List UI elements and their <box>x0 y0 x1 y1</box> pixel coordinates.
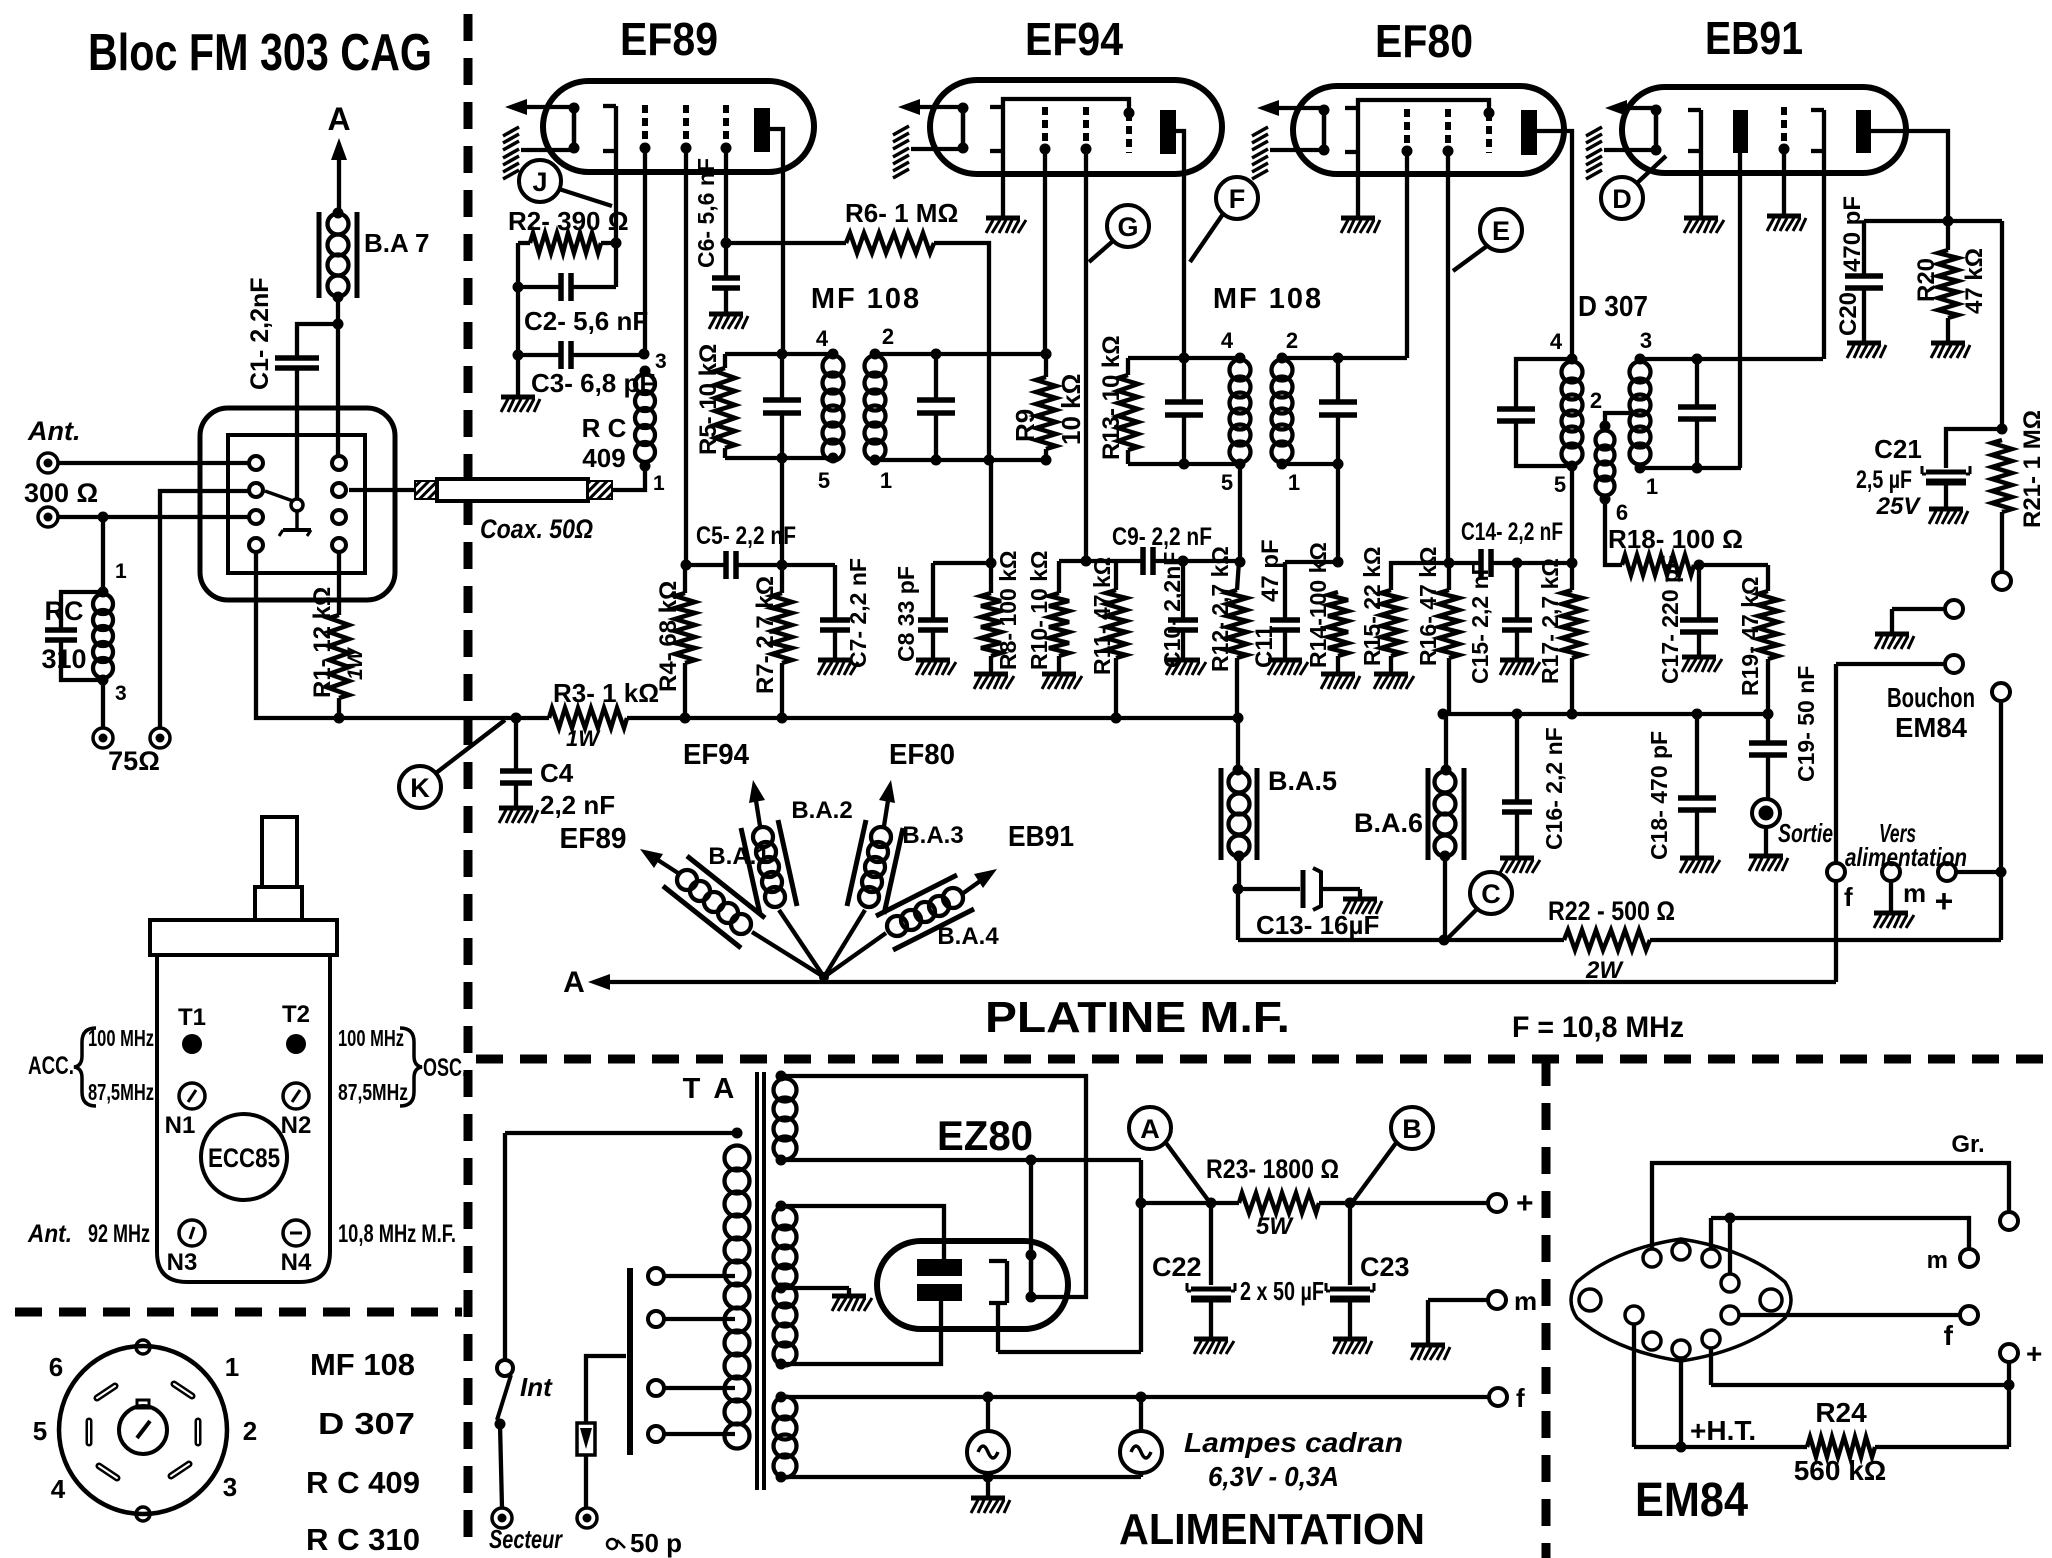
transformer TA core <box>757 1072 764 1490</box>
svg-text:1W: 1W <box>344 646 367 680</box>
EF89 anode <box>754 108 783 355</box>
svg-text:ACC.: ACC. <box>28 1052 74 1080</box>
resistor R17 2.7k <box>1537 466 1582 714</box>
capacitor C1 <box>246 277 344 500</box>
svg-text:ECC85: ECC85 <box>208 1143 280 1173</box>
ground C18 <box>1680 858 1720 873</box>
EB91 cathode arrow <box>1605 100 1656 116</box>
resistor R24 560k <box>1794 1385 2009 1486</box>
ground EF94 g1 <box>986 218 1026 233</box>
svg-text:A: A <box>1140 1114 1160 1144</box>
svg-text:A: A <box>327 101 350 137</box>
capacitor C13 16uF <box>1233 856 1380 940</box>
resistor R22 500 <box>1444 896 2001 984</box>
wire HT2 top to plate1 <box>781 1206 944 1259</box>
svg-text:R19- 47 kΩ: R19- 47 kΩ <box>1737 577 1763 696</box>
svg-text:B.A 7: B.A 7 <box>364 228 430 258</box>
ground C8 <box>916 660 956 675</box>
resistor R19 47k <box>1737 565 1778 720</box>
ground C15 <box>1500 660 1540 675</box>
tube EF94 envelope <box>930 80 1222 174</box>
terminal 75 ohm left <box>93 680 113 748</box>
EF89 grid g1 <box>603 106 616 243</box>
svg-text:6,3V - 0,3A: 6,3V - 0,3A <box>1208 1461 1339 1492</box>
coax cable 50 ohm <box>349 468 645 544</box>
svg-text:T2: T2 <box>282 1001 310 1028</box>
core N2 <box>281 1083 312 1139</box>
resistor R11 47k <box>1089 557 1126 718</box>
label Ant 92 MHz <box>27 1220 150 1248</box>
svg-text:EZ80: EZ80 <box>937 1112 1033 1159</box>
transformer TA label <box>683 1073 738 1105</box>
MF108-1 primary rail top <box>725 349 839 360</box>
D307 secondary rail bottom <box>1640 466 1741 470</box>
svg-text:F = 10,8 MHz: F = 10,8 MHz <box>1512 1011 1684 1044</box>
resistor R18 100 <box>1605 499 1768 575</box>
D307 secondary rail top <box>1640 354 1823 365</box>
EF89 grid g2 dashed <box>640 105 651 355</box>
svg-text:R7- 2,7 kΩ: R7- 2,7 kΩ <box>752 576 779 694</box>
terminal f Bouchon <box>1827 655 1963 912</box>
terminal Ant <box>27 416 249 473</box>
resistor R4 68k <box>655 565 695 718</box>
resistor R8 100k <box>981 460 1021 672</box>
wire BA5 to cathode rail <box>1238 889 1450 946</box>
svg-text:C7- 2,2 nF: C7- 2,2 nF <box>845 558 871 668</box>
svg-text:1W: 1W <box>566 726 601 751</box>
svg-text:J: J <box>532 167 547 197</box>
EM84 socket outline <box>1571 1239 1791 1361</box>
ground C13 <box>1343 899 1382 914</box>
svg-text:ALIMENTATION: ALIMENTATION <box>1119 1505 1425 1554</box>
MF108-2 primary tuning capacitor <box>1165 358 1203 464</box>
EF80 cathode <box>1319 105 1330 156</box>
svg-text:5: 5 <box>1554 472 1566 497</box>
MF108-1 primary tuning capacitor <box>763 354 801 458</box>
svg-text:C13- 16µF: C13- 16µF <box>1256 910 1379 940</box>
svg-text:m: m <box>1927 1247 1948 1274</box>
resistor R13 10k <box>1098 335 1138 464</box>
node J <box>519 160 612 206</box>
EB91 grid dashed <box>1779 107 1790 214</box>
transformer MF108 second label <box>1213 283 1323 315</box>
ground R20 <box>1931 343 1970 358</box>
ground R14 <box>1321 674 1360 689</box>
svg-text:C19- 50 nF: C19- 50 nF <box>1793 666 1819 782</box>
resistor R10 10k <box>1026 551 1086 672</box>
coil B.A.2 to EF94 <box>683 739 853 977</box>
node E <box>1453 209 1522 271</box>
coil RC409 <box>582 350 667 495</box>
svg-text:+: + <box>1516 1187 1534 1220</box>
tuner switch lever <box>265 491 311 536</box>
socket key center <box>119 1400 167 1454</box>
svg-text:N2: N2 <box>281 1112 312 1139</box>
svg-text:2,5 µF: 2,5 µF <box>1856 466 1912 494</box>
tube EF80 label <box>1375 15 1473 67</box>
ground R15 <box>1374 674 1414 689</box>
terminal plus EM84 <box>2000 1338 2042 1391</box>
cathode bottom rail right section <box>1438 709 1769 720</box>
D307 primary tuning capacitor <box>1497 359 1572 466</box>
wire f to A line <box>1834 881 1838 982</box>
svg-text:C4: C4 <box>540 758 574 788</box>
coil B.A.3 to EF80 <box>824 739 964 977</box>
svg-text:R18- 100 Ω: R18- 100 Ω <box>1608 524 1743 554</box>
ground C21 <box>1929 509 1968 524</box>
EB91 diode electrode 2 <box>1811 110 1824 359</box>
capacitor C10 <box>1159 552 1198 668</box>
svg-text:R17- 2,7 kΩ: R17- 2,7 kΩ <box>1537 558 1563 684</box>
svg-text:R16- 47 kΩ: R16- 47 kΩ <box>1415 547 1441 666</box>
wire Gr <box>1652 1131 2018 1249</box>
svg-text:B.A.5: B.A.5 <box>1268 766 1337 796</box>
resistor R1 12k <box>309 552 367 724</box>
svg-text:N1: N1 <box>165 1112 196 1139</box>
capacitor C19 <box>1749 666 1819 799</box>
svg-text:R C 409: R C 409 <box>306 1465 420 1500</box>
svg-text:R5- 10 kΩ: R5- 10 kΩ <box>695 344 722 455</box>
tube EF80 envelope <box>1293 86 1564 174</box>
coil RC 310 <box>41 560 127 705</box>
ground m supply <box>1411 1345 1450 1360</box>
terminal plus supply <box>1350 1187 1534 1220</box>
svg-text:D: D <box>1612 184 1632 214</box>
svg-text:C22: C22 <box>1152 1252 1202 1282</box>
EF80 grid g4 dashed <box>1484 108 1495 154</box>
svg-text:C23: C23 <box>1360 1252 1410 1282</box>
ground EB91 diode1 <box>1684 218 1724 233</box>
label MF 108 list <box>310 1347 415 1382</box>
lamp 1 <box>967 1397 1009 1477</box>
terminal R21 <box>1993 572 2011 590</box>
svg-text:R6- 1 MΩ: R6- 1 MΩ <box>845 198 958 228</box>
svg-text:R2- 390 Ω: R2- 390 Ω <box>508 206 629 236</box>
node A arrow to antenna <box>327 101 350 212</box>
label RC 409 list <box>306 1465 420 1500</box>
coil B.A.7 <box>319 208 430 303</box>
MF108-1 secondary rail top <box>875 349 1052 360</box>
MF108-2 secondary coil <box>1272 328 1301 495</box>
ground m Bouchon <box>1874 913 1914 928</box>
svg-text:C16- 2,2 nF: C16- 2,2 nF <box>1541 727 1567 850</box>
svg-text:EM84: EM84 <box>1895 712 1967 743</box>
terminal 75 ohm right <box>108 491 249 776</box>
svg-text:f: f <box>1516 1383 1525 1413</box>
ground EB91 grid <box>1767 216 1806 231</box>
capacitor C11 47pF <box>1251 539 1338 668</box>
resistor R9 10k <box>1010 354 1086 460</box>
svg-text:Ant.: Ant. <box>27 1220 72 1248</box>
tube EZ80 envelope <box>877 1241 1068 1329</box>
svg-text:D 307: D 307 <box>1578 291 1648 323</box>
main AGC bus wire <box>256 552 1244 724</box>
svg-text:1: 1 <box>880 468 892 493</box>
label EM84 <box>1635 1474 1748 1527</box>
svg-text:5: 5 <box>1221 470 1233 495</box>
EZ80 plate 1 <box>917 1259 962 1276</box>
electrostatic shield bar <box>627 1268 633 1455</box>
heater wire top <box>776 1392 1490 1403</box>
wire HT1 top to rectifier cathode return <box>781 1076 1086 1297</box>
svg-text:B.A.2: B.A.2 <box>791 797 852 824</box>
transformer D307 label <box>1578 291 1648 323</box>
wire m EM84 <box>1711 1213 1978 1275</box>
svg-text:f: f <box>1844 882 1853 912</box>
labels ACC <box>28 1025 154 1106</box>
svg-text:C18- 470 pF: C18- 470 pF <box>1646 731 1672 860</box>
line A AGC <box>563 966 1836 999</box>
MF108-2 primary rail bottom <box>1128 459 1246 568</box>
svg-text:N3: N3 <box>167 1249 198 1276</box>
svg-text:Bloc FM 303 CAG: Bloc FM 303 CAG <box>88 24 432 82</box>
capacitor C15 <box>1467 561 1532 684</box>
svg-text:R C: R C <box>582 413 627 443</box>
resistor R6 1M <box>726 198 989 458</box>
svg-text:EF80: EF80 <box>889 739 955 771</box>
svg-text:R20: R20 <box>1913 258 1940 302</box>
svg-text:75Ω: 75Ω <box>108 746 160 776</box>
ground C6 <box>709 314 748 329</box>
svg-text:D 307: D 307 <box>318 1406 415 1441</box>
svg-text:Secteur: Secteur <box>489 1524 563 1554</box>
tuner pins right column <box>332 456 346 552</box>
svg-text:RC: RC <box>45 596 84 626</box>
wire HT1 bottom B plus line <box>781 1155 1141 1166</box>
terminal 50p <box>577 1508 682 1558</box>
terminal f supply <box>1489 1383 1525 1413</box>
resistor R16 47k <box>1415 547 1459 714</box>
svg-text:C8 33 pF: C8 33 pF <box>893 566 919 662</box>
svg-text:100 MHz: 100 MHz <box>338 1025 404 1051</box>
MF108-1 secondary tuning capacitor <box>917 354 955 460</box>
capacitor C18 <box>1646 714 1716 860</box>
svg-text:EF94: EF94 <box>1025 13 1123 65</box>
svg-text:MF 108: MF 108 <box>310 1347 415 1382</box>
node B circle <box>1354 1107 1433 1200</box>
EB91 diode electrode 1 <box>1688 110 1701 216</box>
capacitor C4 <box>499 718 615 823</box>
svg-text:310: 310 <box>41 644 86 674</box>
svg-text:R9: R9 <box>1010 409 1040 442</box>
svg-text:R1- 12 kΩ: R1- 12 kΩ <box>309 587 336 698</box>
svg-text:EF94: EF94 <box>683 739 749 771</box>
MF108-2 secondary tuning capacitor <box>1319 358 1357 464</box>
svg-text:R22 - 500 Ω: R22 - 500 Ω <box>1548 896 1675 926</box>
node K <box>399 720 505 808</box>
D307 primary coil <box>1550 329 1583 497</box>
EZ80 plate 2 <box>917 1284 962 1301</box>
svg-text:1: 1 <box>225 1352 239 1382</box>
ground heater <box>971 1498 1010 1513</box>
EF80 grid g2 dashed <box>1402 109 1413 358</box>
capacitor C6 <box>693 158 740 312</box>
tube EB91 envelope <box>1622 87 1906 173</box>
svg-text:T1: T1 <box>178 1004 206 1031</box>
terminal Gr pair <box>1892 600 1963 632</box>
dashed divider PLATINE MF / ALIMENTATION <box>476 1055 2052 1064</box>
trimmer T1 <box>178 1004 206 1054</box>
label ALIMENTATION <box>1119 1505 1425 1554</box>
node F <box>1190 177 1258 262</box>
node G <box>1089 205 1149 262</box>
svg-text:R11- 47 kΩ: R11- 47 kΩ <box>1089 557 1115 675</box>
terminal plus Bouchon <box>1935 683 2010 940</box>
EF80 cathode arrow <box>1257 100 1324 116</box>
svg-text:47 kΩ: 47 kΩ <box>1961 248 1988 314</box>
svg-text:C15- 2,2 nF: C15- 2,2 nF <box>1467 561 1493 684</box>
EF94 cathode <box>958 103 969 154</box>
tube ECC85 circle <box>201 1114 287 1200</box>
socket pin 6 <box>49 1352 115 1398</box>
wire C20 R20 rail <box>1864 219 2002 223</box>
resistor R20 47k <box>1913 221 1988 341</box>
wire plus to socket <box>1711 1348 2009 1385</box>
svg-text:B.A.3: B.A.3 <box>902 822 963 849</box>
EF89 cathode arrow <box>505 99 574 115</box>
capacitor C2 <box>518 243 648 336</box>
svg-text:5W: 5W <box>1256 1213 1294 1240</box>
svg-text:100 MHz: 100 MHz <box>88 1025 154 1051</box>
ground C22 <box>1194 1339 1234 1354</box>
MF108-1 secondary rail bottom <box>875 455 1052 466</box>
ground EF80 g1 <box>1341 218 1380 233</box>
svg-text:3: 3 <box>655 350 667 373</box>
MF108-2 secondary rail bottom <box>1282 459 1344 568</box>
mains taps terminals <box>648 1268 735 1442</box>
capacitor C8 <box>893 563 991 662</box>
wire HT node <box>1634 1324 1807 1453</box>
wire B.A.7 to tuner <box>336 297 340 458</box>
svg-text:C17- 220 pF: C17- 220 pF <box>1657 555 1683 684</box>
ground C20 <box>1847 343 1886 358</box>
EM84 socket pins <box>1579 1242 1782 1358</box>
ground center tap <box>832 1296 872 1311</box>
tuner block FM 303 outline <box>200 408 395 600</box>
label Lampes cadran <box>1184 1427 1403 1492</box>
svg-text:C20: C20 <box>1835 292 1862 336</box>
ground R10 <box>1042 674 1082 689</box>
svg-text:Int: Int <box>520 1372 553 1402</box>
terminal m Bouchon <box>1882 863 1926 911</box>
svg-text:T A: T A <box>683 1073 738 1105</box>
D307 secondary tuning capacitor <box>1678 359 1716 474</box>
label Vers alimentation <box>1845 818 1967 872</box>
D307 secondary coil <box>1630 328 1659 499</box>
terminal m supply <box>1428 1286 1537 1343</box>
svg-text:C10- 2,2nF: C10- 2,2nF <box>1159 552 1185 668</box>
node D <box>1601 156 1666 219</box>
MF108-2 primary coil <box>1221 328 1251 495</box>
label PLATINE M.F. <box>985 993 1290 1042</box>
svg-text:5: 5 <box>33 1416 47 1446</box>
wire HT2 bottom to plate2 <box>781 1301 941 1364</box>
EF80 grid g1 with strap <box>1345 100 1489 216</box>
label Bouchon EM84 <box>1887 682 1975 743</box>
ground C10 <box>1166 660 1206 675</box>
ground R2C2 rail <box>501 397 540 412</box>
svg-text:R24: R24 <box>1815 1397 1867 1428</box>
svg-text:C21: C21 <box>1874 434 1922 464</box>
EF94 cathode arrow <box>898 99 963 115</box>
svg-text:5: 5 <box>818 468 830 493</box>
capacitor C20 <box>1835 196 1883 341</box>
label RC 310 list <box>306 1522 420 1557</box>
socket pin 2 <box>198 1416 257 1446</box>
EF80 anode <box>1521 110 1572 359</box>
svg-text:G: G <box>1117 212 1138 242</box>
svg-text:2,2 nF: 2,2 nF <box>540 790 615 820</box>
svg-text:25V: 25V <box>1876 493 1922 520</box>
svg-text:C9- 2,2 nF: C9- 2,2 nF <box>1112 523 1212 551</box>
svg-text:+: + <box>1935 883 1954 919</box>
EF89 cathode ground <box>503 127 574 179</box>
svg-text:A: A <box>563 966 585 999</box>
ground C16 <box>1500 858 1540 873</box>
svg-text:EM84: EM84 <box>1635 1474 1748 1527</box>
tube EB91 label <box>1705 12 1803 64</box>
svg-text:R21- 1 MΩ: R21- 1 MΩ <box>2019 410 2046 528</box>
svg-text:3: 3 <box>223 1472 237 1502</box>
svg-text:4: 4 <box>1221 328 1234 353</box>
dashed section divider vertical left <box>464 14 473 1552</box>
svg-text:m: m <box>1903 878 1926 908</box>
terminal 300 ohm <box>24 478 249 592</box>
resistor R7 2.7k <box>752 565 792 718</box>
EF89 grid g3 dashed <box>681 105 692 565</box>
capacitor C17 <box>1657 555 1718 684</box>
tube socket circle <box>59 1340 227 1521</box>
capacitor C14 <box>1449 518 1578 577</box>
ground Gr pair <box>1875 634 1914 649</box>
svg-text:Coax. 50Ω: Coax. 50Ω <box>480 514 593 544</box>
svg-text:R13- 10 kΩ: R13- 10 kΩ <box>1098 335 1125 460</box>
svg-text:m: m <box>1514 1286 1537 1316</box>
ground R8 <box>974 674 1014 689</box>
dashed divider bottom-left <box>15 1308 462 1317</box>
svg-text:MF 108: MF 108 <box>1213 283 1323 315</box>
wire R2C2 ground rail <box>513 243 524 395</box>
svg-text:Lampes cadran: Lampes cadran <box>1184 1427 1403 1458</box>
resistor R15 22k <box>1359 547 1449 672</box>
svg-text:47 pF: 47 pF <box>1257 539 1284 602</box>
svg-text:EF80: EF80 <box>1375 15 1473 67</box>
svg-text:1: 1 <box>1646 474 1658 499</box>
svg-text:6: 6 <box>1616 500 1628 525</box>
svg-text:EB91: EB91 <box>1705 12 1803 64</box>
svg-text:OSC.: OSC. <box>423 1054 467 1082</box>
socket pin 5 <box>33 1416 89 1446</box>
resistor R21 1M <box>1992 410 2046 572</box>
svg-text:alimentation: alimentation <box>1845 842 1967 872</box>
switch Int <box>495 1133 554 1508</box>
capacitor C9 <box>1086 523 1239 575</box>
svg-text:560 kΩ: 560 kΩ <box>1794 1455 1887 1486</box>
capacitor C5 <box>681 522 797 579</box>
svg-text:C2- 5,6 nF: C2- 5,6 nF <box>524 306 648 336</box>
EZ80 cathode <box>1026 1160 1037 1303</box>
capacitor C23 <box>1326 1203 1410 1337</box>
EB91 anode 2 <box>1856 110 1954 227</box>
svg-text:2: 2 <box>1590 388 1602 413</box>
EF80 grid g3 dashed <box>1443 109 1455 569</box>
svg-text:f: f <box>1944 1320 1954 1351</box>
EF94 grid g4 dashed <box>1124 108 1135 154</box>
svg-text:R8- 100 kΩ: R8- 100 kΩ <box>995 551 1021 670</box>
svg-text:C: C <box>1481 879 1501 909</box>
svg-text:300 Ω: 300 Ω <box>24 478 98 508</box>
label D 307 list <box>318 1406 415 1441</box>
